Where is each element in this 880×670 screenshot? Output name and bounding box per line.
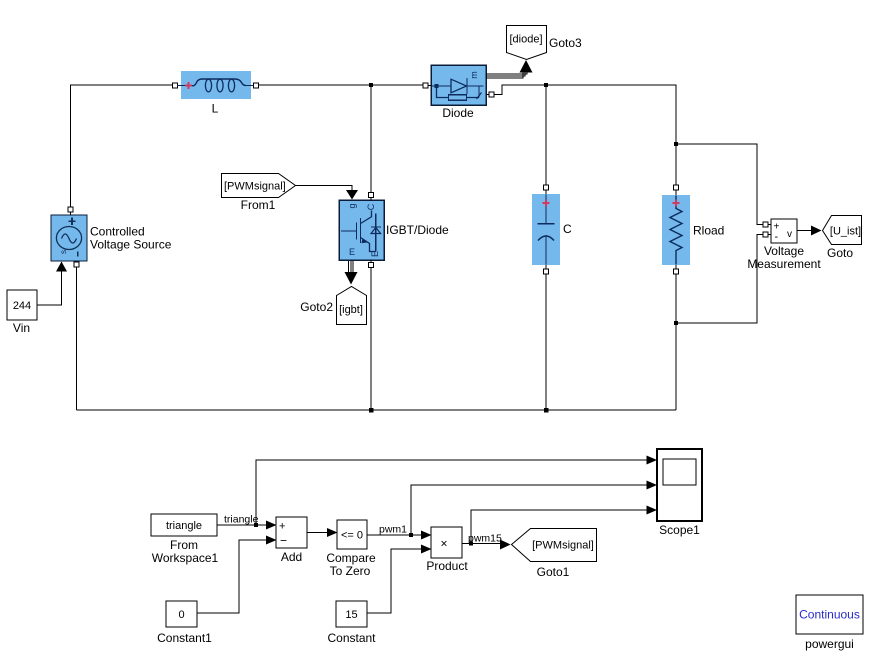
- junction: top rail to capacitor: [544, 83, 548, 87]
- junction: minus tap on Rload lower riser: [674, 321, 678, 325]
- from tag From1 [PWMsignal]: [222, 174, 296, 198]
- wire: L right port to Diode left port: [259, 84, 424, 86]
- wire: up and right to Scope1 input 3: [471, 510, 648, 544]
- junction: triangle wire to scope line 1: [254, 523, 258, 527]
- svg-text:-: -: [775, 231, 779, 243]
- arrowhead: scope input 3: [647, 506, 658, 515]
- wire: voltage source minus down to bottom rail: [76, 267, 78, 410]
- wire: up and right to Scope1 input 2: [411, 485, 648, 535]
- svg-text:Workspace1: Workspace1: [152, 551, 219, 565]
- constant block Constant (15): [336, 601, 367, 627]
- voltage measurement block: [771, 219, 797, 243]
- svg-text:Constant1: Constant1: [157, 631, 212, 645]
- svg-text:From: From: [170, 538, 198, 552]
- svg-text:Add: Add: [281, 550, 302, 564]
- svg-text:From1: From1: [241, 198, 276, 212]
- svg-text:−: −: [280, 534, 287, 548]
- wire: From1 to IGBT gate: [295, 186, 352, 191]
- diode block: [431, 65, 486, 105]
- svg-text:g: g: [347, 203, 357, 208]
- port: voltage measurement plus: [763, 222, 768, 227]
- wire: Add output to Compare To Zero: [307, 532, 328, 534]
- wire: up and right to Scope1 input 1: [256, 460, 648, 525]
- port: diode cathode (right): [489, 92, 494, 97]
- wire: diode cathode to top rail, over to Rload riser: [494, 85, 676, 185]
- svg-text:powergui: powergui: [805, 637, 854, 651]
- scope block Scope1: [657, 449, 702, 521]
- diode measurement triple wire to Goto3: [486, 72, 527, 79]
- svg-text:triangle: triangle: [166, 520, 202, 532]
- wire: voltage measurement output: [797, 230, 812, 232]
- svg-text:E: E: [349, 247, 355, 257]
- port: capacitor top: [544, 185, 549, 190]
- svg-text:[igbt]: [igbt]: [339, 304, 363, 316]
- svg-text:0: 0: [178, 609, 184, 621]
- svg-text:Product: Product: [426, 559, 468, 573]
- svg-text:triangle: triangle: [224, 514, 259, 526]
- resistor Rload block: [662, 195, 690, 265]
- IGBT/Diode block: [339, 200, 384, 260]
- wire: capacitor riser: [545, 85, 547, 185]
- svg-text:[PWMsignal]: [PWMsignal]: [224, 181, 286, 193]
- svg-text:m: m: [469, 71, 479, 79]
- port ticks: [71, 86, 772, 270]
- port: inductor left: [173, 83, 178, 88]
- svg-text:Voltage: Voltage: [764, 244, 804, 258]
- svg-text:Constant: Constant: [327, 631, 376, 645]
- arrowhead: into IGBT gate: [346, 190, 358, 200]
- port: Rload bottom: [674, 269, 679, 274]
- arrowhead: into Add minus: [266, 536, 277, 545]
- port: IGBT collector: [369, 193, 374, 198]
- goto tag Goto1 [PWMsignal]: [512, 529, 597, 562]
- wire: triangle output to Add plus input: [217, 524, 267, 526]
- constant block Vin (244): [7, 290, 37, 320]
- goto tag Goto3 [diode]: [507, 26, 547, 60]
- inductor L block: [178, 71, 254, 99]
- port: diode anode (left): [423, 83, 428, 88]
- port: voltage source bottom (-): [74, 262, 79, 267]
- from workspace block (triangle): [151, 514, 217, 536]
- wire: riser from Controlled Voltage Source top port: [70, 207, 72, 215]
- wire: capacitor down to bottom rail: [545, 274, 547, 410]
- arrowhead: into Product input 2: [421, 545, 432, 554]
- svg-text:Vin: Vin: [13, 321, 30, 335]
- product block: [431, 527, 462, 558]
- constant block Constant1 (0): [166, 601, 197, 627]
- junction: Rload riser to voltage measurement plus: [674, 142, 678, 146]
- junction on bottom rail at capacitor: [544, 408, 548, 412]
- svg-text:Goto: Goto: [827, 246, 853, 260]
- arrowhead: into Compare To Zero: [327, 528, 338, 537]
- wire: voltage measurement minus input to Rload bottom: [676, 235, 763, 324]
- junction: top rail to IGBT collector: [369, 83, 373, 87]
- wire: Compare output to Product input 1: [367, 534, 422, 536]
- bottom rail: [77, 409, 677, 411]
- junction: pwm1 wire to scope line 2: [409, 533, 413, 537]
- arrowhead: into Goto2: [345, 272, 358, 285]
- compare to zero block: [337, 520, 367, 549]
- IGBT measurement triple wire to Goto2: [349, 261, 354, 272]
- svg-text:[U_ist]: [U_ist]: [830, 226, 861, 238]
- arrowhead: into Goto: [811, 226, 822, 236]
- port: IGBT emitter E2: [369, 263, 374, 268]
- svg-text:Measurement: Measurement: [747, 257, 821, 271]
- svg-text:Scope1: Scope1: [659, 523, 700, 537]
- svg-text:244: 244: [13, 300, 31, 312]
- wire: Rload down to bottom rail: [675, 274, 677, 410]
- arrowhead: scope input 1: [647, 456, 658, 465]
- svg-text:IGBT/Diode: IGBT/Diode: [386, 223, 449, 237]
- svg-text:pwm1: pwm1: [379, 524, 407, 536]
- port: capacitor bottom: [544, 269, 549, 274]
- powergui block: [796, 595, 863, 634]
- arrowhead: scope input 2: [647, 481, 658, 490]
- port: Rload top: [674, 185, 679, 190]
- junction on bottom rail at IGBT emitter: [369, 408, 373, 412]
- svg-text:Goto1: Goto1: [537, 565, 570, 579]
- wire: Constant1 to Add minus input: [197, 540, 267, 613]
- svg-text:+: +: [279, 521, 285, 533]
- port: inductor right: [254, 83, 259, 88]
- svg-text:[PWMsignal]: [PWMsignal]: [532, 540, 594, 552]
- add block: [276, 517, 307, 548]
- svg-text:Rload: Rload: [693, 224, 724, 238]
- wire: from Vin constant to s input: [37, 262, 62, 305]
- wire: to voltage measurement plus input: [676, 144, 763, 225]
- arrowhead: into Product input 1: [421, 531, 432, 540]
- arrowhead: signal into voltage source s input: [56, 262, 67, 272]
- port: voltage measurement minus: [763, 232, 768, 237]
- junction: pwm15 wire to scope line 3: [469, 541, 473, 545]
- arrowhead: into Add plus: [266, 521, 277, 530]
- svg-text:×: ×: [440, 537, 447, 551]
- svg-text:C: C: [366, 203, 376, 210]
- arrowhead: into Goto3: [520, 60, 533, 73]
- svg-text:15: 15: [345, 609, 357, 621]
- wire: top rail from source riser to L left port: [71, 85, 173, 209]
- svg-text:Compare: Compare: [326, 551, 376, 565]
- svg-text:<= 0: <= 0: [341, 530, 363, 542]
- wire: Product output to Goto1: [462, 543, 501, 545]
- svg-text:To Zero: To Zero: [330, 564, 371, 578]
- svg-text:Controlled: Controlled: [90, 225, 145, 239]
- wire: Constant to Product input 2: [367, 549, 422, 613]
- svg-text:v: v: [787, 229, 792, 240]
- port: voltage source top (+): [68, 207, 73, 212]
- controlled voltage source block: [51, 215, 87, 261]
- svg-text:L: L: [212, 102, 219, 116]
- svg-text:Goto3: Goto3: [549, 36, 582, 50]
- svg-text:C: C: [563, 222, 572, 236]
- svg-text:Goto2: Goto2: [300, 300, 333, 314]
- goto tag Goto [U_ist]: [823, 216, 862, 245]
- svg-text:Voltage Source: Voltage Source: [90, 238, 172, 252]
- wire: IGBT emitter down to bottom rail: [370, 268, 372, 411]
- svg-text:Continuous: Continuous: [799, 608, 860, 622]
- svg-text:Diode: Diode: [442, 106, 474, 120]
- svg-text:[diode]: [diode]: [509, 34, 542, 46]
- wire: down to IGBT collector port: [370, 85, 372, 193]
- capacitor C block: [532, 194, 560, 265]
- svg-text:s: s: [59, 250, 68, 254]
- goto tag Goto2 [igbt]: [337, 287, 367, 325]
- arrowhead: into Goto1: [500, 540, 511, 550]
